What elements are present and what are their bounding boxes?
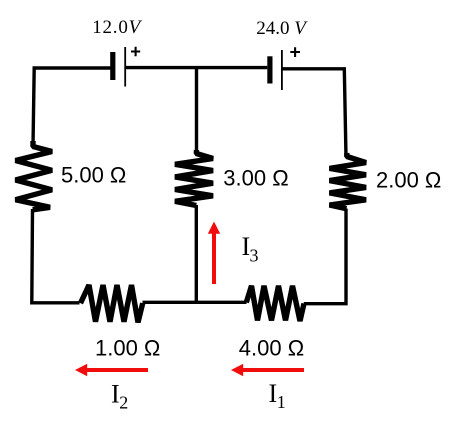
battery V1 plus sign (131, 47, 140, 56)
svg-text:12.0V: 12.0V (92, 17, 142, 38)
wire middle-top branch: top node B down to resistor R2 (195, 68, 198, 153)
resistor R1 5.00 ohm (left vertical zigzag) (16, 141, 53, 210)
wire bottom-right: resistor R5 right to bottom-right corner node F (304, 209, 346, 304)
svg-text:24.0 V: 24.0 V (256, 18, 308, 39)
wire left-lower: resistor R1 bottom to bottom-left corner node D (32, 209, 80, 303)
resistor R3 2.00 ohm (right vertical zigzag) (330, 153, 367, 209)
wire top-right: battery V2 positive to top-right corner node C (282, 69, 346, 157)
svg-text:2: 2 (119, 393, 128, 413)
battery V1 12.0V positive plate (124, 47, 126, 87)
current arrow I2 (red, pointing left) (75, 364, 148, 376)
resistor R4 1.00 ohm (bottom-left horizontal zigzag) (81, 285, 143, 322)
svg-text:1.00 Ω: 1.00 Ω (95, 336, 160, 361)
svg-text:5.00 Ω: 5.00 Ω (61, 163, 126, 188)
wire top-left: node A to battery V1 negative (33, 68, 111, 146)
battery V1 12.0V negative plate (110, 52, 115, 80)
wire top-middle: battery V1 positive to battery V2 negative (125, 66, 267, 69)
current arrow I1 (red, pointing left) (231, 364, 304, 376)
wire middle-lower: resistor R2 bottom to bottom node E (195, 205, 198, 301)
battery V2 24.0V positive plate (281, 50, 283, 90)
resistor R2 3.00 ohm (middle vertical zigzag) (175, 150, 213, 206)
current arrow I3 (red, pointing up) (208, 222, 220, 285)
battery V2 plus sign (290, 47, 300, 57)
svg-text:3.00 Ω: 3.00 Ω (223, 166, 288, 191)
svg-text:1: 1 (277, 392, 286, 412)
battery V2 24.0V negative plate (267, 56, 272, 83)
resistor R5 4.00 ohm (bottom-right horizontal zigzag) (246, 286, 304, 321)
svg-text:3: 3 (250, 246, 259, 266)
wire bottom-middle: between resistor R4 and resistor R5 through node E (143, 301, 247, 304)
svg-text:4.00 Ω: 4.00 Ω (239, 336, 304, 361)
svg-text:2.00 Ω: 2.00 Ω (376, 168, 441, 193)
